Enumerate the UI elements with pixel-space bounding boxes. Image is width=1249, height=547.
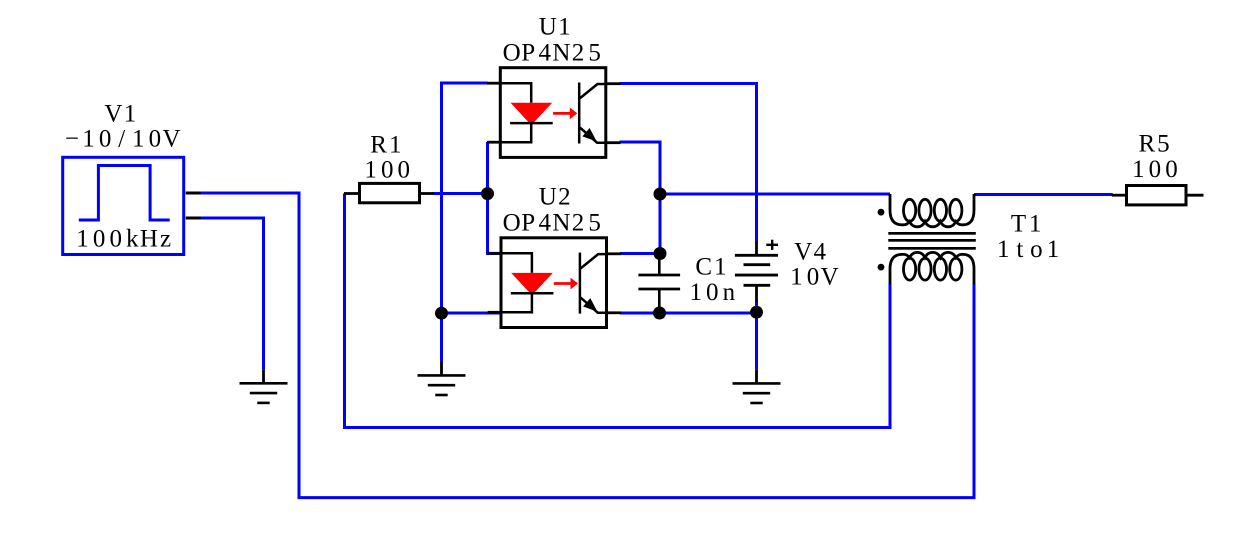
battery V4 plate 1 long	[735, 254, 778, 257]
battery plus sign	[766, 244, 778, 246]
capacitor C1 top lead	[658, 254, 661, 276]
svg-text:100: 100	[364, 157, 410, 184]
battery V4 bottom lead	[755, 285, 758, 302]
wire: U2 emitter row to battery bottom	[620, 312, 757, 315]
svg-text:R1: R1	[370, 131, 401, 158]
V1 pulse waveform	[79, 166, 170, 221]
svg-text:100: 100	[1132, 156, 1178, 183]
ground G2 (LED return)	[418, 361, 466, 395]
ground G1 (V1)	[240, 369, 288, 403]
wire: V1 minus terminal to ground G1	[199, 218, 264, 369]
wire: transformer primary-right to R5	[974, 193, 1113, 196]
wire: U1 collector to battery V4 top	[620, 84, 757, 243]
capacitor C1 top plate	[638, 274, 680, 277]
junction node A (R1/U1/U2 LED)	[481, 187, 494, 200]
junction node E (battery bottom)	[750, 306, 763, 319]
R5 right lead	[1186, 194, 1204, 197]
svg-text:C1: C1	[695, 253, 726, 280]
battery V4 plate 3 long	[735, 274, 778, 277]
battery V4 top lead	[755, 241, 758, 255]
optocoupler U2	[488, 238, 622, 328]
resistor R5 box	[1127, 186, 1187, 205]
svg-text:−10/10V: −10/10V	[65, 125, 181, 152]
T1 secondary loop 3	[934, 258, 946, 280]
transformer T1 primary winding (top)	[890, 194, 974, 227]
wire: U1 emitter right then down to node B	[620, 142, 661, 254]
junction node D (U2 emitter / C1 bottom)	[653, 307, 666, 320]
T1 phase dot secondary	[878, 264, 885, 271]
T1 phase dot primary	[878, 209, 885, 216]
svg-text:10V: 10V	[790, 264, 838, 291]
T1 secondary loop 1	[904, 258, 916, 280]
T1 core line 3	[888, 247, 976, 250]
battery V4 plate 4 short	[744, 284, 771, 287]
junction node F (U2 LED cathode / ground branch)	[435, 307, 448, 320]
ground G3 (battery)	[733, 369, 781, 403]
T1 core line 1	[888, 232, 976, 235]
voltage source V1 box	[63, 157, 184, 254]
svg-text:V1: V1	[104, 101, 136, 128]
R1 right lead	[420, 192, 434, 195]
T1 primary loop 2	[919, 199, 931, 221]
capacitor C1 bottom plate	[638, 288, 680, 291]
T1 primary loop 3	[934, 199, 946, 221]
svg-text:V4: V4	[794, 239, 826, 266]
resistor R1 box	[360, 183, 420, 202]
capacitor C1 bottom lead	[658, 289, 661, 313]
wire: U1 LED anode left then down to ground G2	[442, 83, 488, 362]
svg-text:U2: U2	[539, 183, 571, 210]
wire: battery bottom to ground G3	[755, 301, 758, 369]
T1 core line 2	[888, 239, 976, 242]
R1 left lead	[344, 192, 360, 195]
wire: U2 LED cathode left to ground branch	[442, 312, 501, 315]
transformer T1 secondary winding (bottom)	[890, 252, 974, 284]
battery V4 plate 2 short	[744, 263, 771, 266]
V1 terminal stub top	[186, 192, 201, 195]
svg-text:R5: R5	[1138, 131, 1169, 158]
wire: U2 collector stub to node B	[620, 252, 660, 255]
wire: node B to main output node across to transformer primary-left	[660, 193, 890, 196]
T1 primary loop 4	[950, 199, 962, 221]
T1 primary loop 1	[904, 199, 916, 221]
wire: V1 plus terminal to transformer secondary bottom-right (long loop)	[199, 193, 974, 498]
T1 secondary loop 2	[919, 258, 931, 280]
wire: U1 LED cathode down through node A to U2 LED anode	[488, 142, 501, 254]
T1 secondary loop 4	[950, 258, 962, 280]
junction node B (U1 emitter / output)	[654, 188, 667, 201]
wire: R1 left lead down and across to transformer secondary bottom-left	[345, 194, 891, 428]
R5 left lead	[1112, 194, 1127, 197]
V1 terminal stub bottom	[186, 217, 201, 220]
optocoupler U1	[487, 68, 621, 158]
junction node C (U2 collector / C1 top)	[654, 247, 667, 260]
svg-text:10n: 10n	[689, 279, 735, 306]
svg-text:T1: T1	[1011, 211, 1041, 238]
wire: R1 right lead to node A	[434, 192, 488, 195]
svg-text:U1: U1	[539, 13, 571, 40]
